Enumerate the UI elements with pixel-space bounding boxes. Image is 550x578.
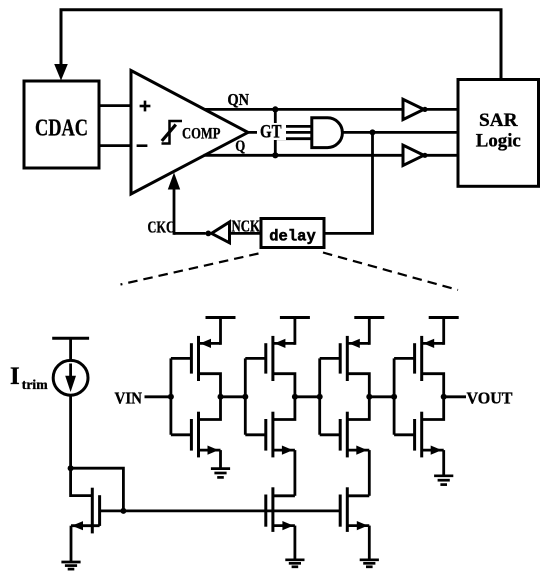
transistor M2N NMOS gate lead — [245, 433, 265, 436]
node stage 1 output — [218, 394, 224, 400]
svg-text:GT: GT — [260, 123, 282, 143]
transistor M4P PMOS gate bar — [413, 343, 416, 373]
transistor M1N NMOS source lead with arrow — [199, 446, 221, 455]
label COMP — [182, 125, 221, 142]
transistor M4P PMOS channel bar — [420, 336, 423, 381]
buffer U4 (QN to SAR) — [403, 99, 424, 119]
svg-text:SAR: SAR — [479, 110, 518, 131]
transistor M4P PMOS drain lead — [422, 374, 444, 397]
transistor M3N NMOS drain lead — [347, 396, 369, 420]
node stage 4 output — [441, 394, 447, 400]
block SAR Logic — [458, 80, 539, 187]
svg-text:VOUT: VOUT — [467, 388, 514, 407]
wire M2S source to ground — [293, 526, 296, 560]
transistor M2P PMOS gate bar — [264, 343, 267, 373]
wire feedback SAR Logic to CDAC (top) — [61, 10, 501, 80]
power VDD bar (stage 2) — [280, 318, 310, 345]
transistor M1P PMOS channel bar — [197, 336, 200, 381]
wire mirror node to M0 gate — [71, 468, 93, 495]
svg-text:NCK: NCK — [232, 217, 261, 236]
wire stage 1 output to stage 2 input — [221, 395, 246, 398]
svg-text:Logic: Logic — [476, 131, 521, 152]
wire stage 2 input vertical — [244, 358, 247, 434]
wire QN output — [205, 108, 403, 111]
transistor M3N NMOS source lead with arrow — [347, 446, 369, 455]
label VOUT — [467, 388, 514, 407]
transistor M4N NMOS drain lead — [422, 396, 444, 420]
transistor M1P PMOS drain lead — [199, 374, 221, 397]
transistor M3N NMOS gate lead — [320, 433, 341, 436]
ground (stage 3) — [360, 560, 379, 567]
node stage 3 output — [366, 394, 372, 400]
ground (mirror) — [61, 562, 80, 569]
comparator - sign — [137, 144, 148, 147]
arrowhead into CDAC top — [54, 64, 68, 81]
node QN junction — [272, 106, 278, 112]
wire M0 source to ground — [70, 526, 73, 562]
wire AND output to SAR Logic — [342, 131, 458, 134]
block delay — [261, 219, 324, 248]
transistor M4N NMOS channel bar — [420, 412, 423, 458]
transistor M3P PMOS gate lead — [320, 357, 341, 360]
transistor M1P PMOS source lead with arrow — [199, 339, 221, 348]
wire QN to AND gate input — [275, 109, 311, 126]
transistor M2P PMOS drain lead — [273, 374, 295, 397]
AND gate U2 — [312, 118, 343, 148]
power VDD bar (stage 1) — [206, 318, 236, 345]
node stage 2 input — [242, 394, 248, 400]
ground (stage 2) — [285, 560, 304, 567]
svg-text:CDAC: CDAC — [35, 114, 88, 141]
node Q junction — [272, 152, 278, 158]
svg-text:Q: Q — [235, 138, 245, 155]
transistor M4P PMOS gate lead — [394, 357, 415, 360]
transistor M2S channel bar — [271, 487, 274, 532]
comparator clock/hysteresis symbol — [162, 121, 183, 144]
wire stage 3 input vertical — [318, 358, 321, 434]
transistor M2N NMOS source lead with arrow — [273, 446, 295, 455]
wire stage 3 output to stage 4 input — [369, 395, 394, 398]
transistor M4P PMOS source lead with arrow — [422, 339, 444, 348]
wire CKC net — [174, 232, 206, 235]
block CDAC — [24, 81, 99, 168]
wire VIN to stage 1 input — [145, 395, 171, 398]
node stage 1 input — [168, 394, 174, 400]
current source Itrim — [53, 360, 88, 395]
label VIN — [115, 388, 143, 407]
inverter U3 (triangle) — [212, 222, 230, 243]
label QN — [228, 90, 250, 109]
power VDD bar (Itrim) — [52, 338, 89, 361]
node stage 4 input — [391, 394, 397, 400]
transistor M2P PMOS source lead with arrow — [273, 339, 295, 348]
transistor M4N NMOS gate lead — [394, 433, 415, 436]
wire delay to inverter (NCK net) — [230, 232, 262, 235]
label CKC — [148, 218, 176, 237]
ground (stage 1) — [211, 469, 230, 478]
transistor M2N NMOS gate bar — [264, 419, 267, 451]
transistor M3P PMOS drain lead — [347, 374, 369, 397]
transistor M1N NMOS channel bar — [197, 412, 200, 458]
power VDD bar (stage 4) — [429, 318, 459, 345]
wire stage 4 output to VOUT — [444, 395, 466, 398]
wire buffer U5 to SAR Logic — [425, 154, 458, 157]
label NCK — [232, 217, 261, 236]
ground (stage 4) — [434, 476, 453, 485]
wire comparator apex to AND gate (GT net) — [248, 131, 311, 134]
transistor M2N NMOS channel bar — [271, 412, 274, 458]
label Q — [235, 138, 245, 155]
transistor M1N NMOS gate bar — [190, 419, 193, 451]
svg-text:QN: QN — [228, 90, 250, 109]
node buffer U4 output — [422, 107, 427, 112]
node stage 3 input — [317, 394, 323, 400]
transistor M3S gate bar — [339, 495, 342, 527]
transistor M0 drain lead — [100, 509, 124, 512]
transistor M3N NMOS gate bar — [339, 419, 342, 451]
transistor M3P PMOS source lead with arrow — [347, 339, 369, 348]
transistor M2S (starved NMOS) drain lead — [273, 494, 295, 497]
transistor M2P PMOS channel bar — [271, 336, 274, 381]
transistor M0 (mirror NMOS) gate bar — [91, 488, 94, 534]
wire M2N source to starved M2S drain — [293, 450, 296, 496]
wire CDAC to comparator + input — [99, 104, 131, 107]
arrowhead clock into comparator — [168, 173, 180, 190]
wire CDAC to comparator - input — [99, 144, 131, 147]
wire Q to AND gate input — [275, 139, 311, 156]
wire buffer U4 to SAR Logic — [425, 108, 458, 111]
svg-text:VIN: VIN — [115, 388, 143, 407]
transistor M3P PMOS channel bar — [346, 336, 349, 381]
label GT — [257, 123, 286, 143]
wire M1N source to ground — [219, 450, 222, 469]
wire stage 2 output to stage 3 input — [295, 395, 320, 398]
power VDD bar (stage 3) — [354, 318, 384, 345]
svg-text:trim: trim — [22, 377, 49, 392]
transistor M1N NMOS drain lead — [199, 396, 221, 420]
wire junction down to delay output — [324, 132, 373, 233]
wire Itrim to mirror node — [69, 395, 72, 468]
op-amp comparator U1 — [131, 71, 248, 195]
transistor M2S gate bar — [264, 495, 267, 527]
bias rail to starved gates — [123, 509, 340, 512]
node buffer U5 output — [422, 153, 427, 158]
transistor M4N NMOS source lead with arrow — [422, 446, 444, 455]
wire CKC up to comparator clock — [173, 188, 176, 235]
node mirror (diode connection) — [68, 465, 74, 471]
dashed leader right (delay detail) — [323, 253, 458, 291]
comparator + sign — [140, 101, 151, 112]
svg-text:I: I — [10, 363, 20, 390]
wire mirror node to drain rail — [71, 468, 124, 511]
wire M3S source to ground — [368, 526, 371, 560]
svg-text:CKC: CKC — [148, 218, 176, 237]
svg-text:delay: delay — [269, 228, 316, 246]
wire stage 1 input vertical — [169, 358, 172, 434]
transistor M4N NMOS gate bar — [413, 419, 416, 451]
dashed leader left (delay detail) — [121, 254, 259, 285]
label Itrim — [10, 363, 48, 392]
transistor M0 channel bar — [98, 495, 101, 526]
wire M3N source to starved M3S drain — [368, 450, 371, 496]
transistor M2N NMOS drain lead — [273, 396, 295, 420]
transistor M3S (starved NMOS) drain lead — [347, 494, 369, 497]
node AND output junction — [370, 129, 376, 135]
svg-text:COMP: COMP — [182, 125, 221, 142]
wire M4N source to ground — [442, 450, 445, 476]
node stage 2 output — [292, 394, 298, 400]
transistor M1P PMOS gate lead — [171, 357, 192, 360]
transistor M2S source lead with arrow — [273, 521, 295, 530]
transistor M3N NMOS channel bar — [346, 412, 349, 458]
wire Q output — [204, 154, 404, 157]
wire stage 4 input vertical — [393, 358, 396, 434]
transistor M1N NMOS gate lead — [171, 433, 192, 436]
buffer U5 (Q to SAR) — [403, 145, 424, 165]
transistor M3P PMOS gate bar — [339, 343, 342, 373]
inverter U3 bubble — [205, 231, 211, 237]
transistor M0 source lead with arrow — [71, 521, 100, 530]
node M0 drain / bias rail junction — [120, 508, 126, 514]
transistor M1P PMOS gate bar — [190, 343, 193, 373]
transistor M2P PMOS gate lead — [245, 357, 265, 360]
transistor M3S source lead with arrow — [347, 521, 369, 530]
transistor M3S channel bar — [346, 487, 349, 532]
